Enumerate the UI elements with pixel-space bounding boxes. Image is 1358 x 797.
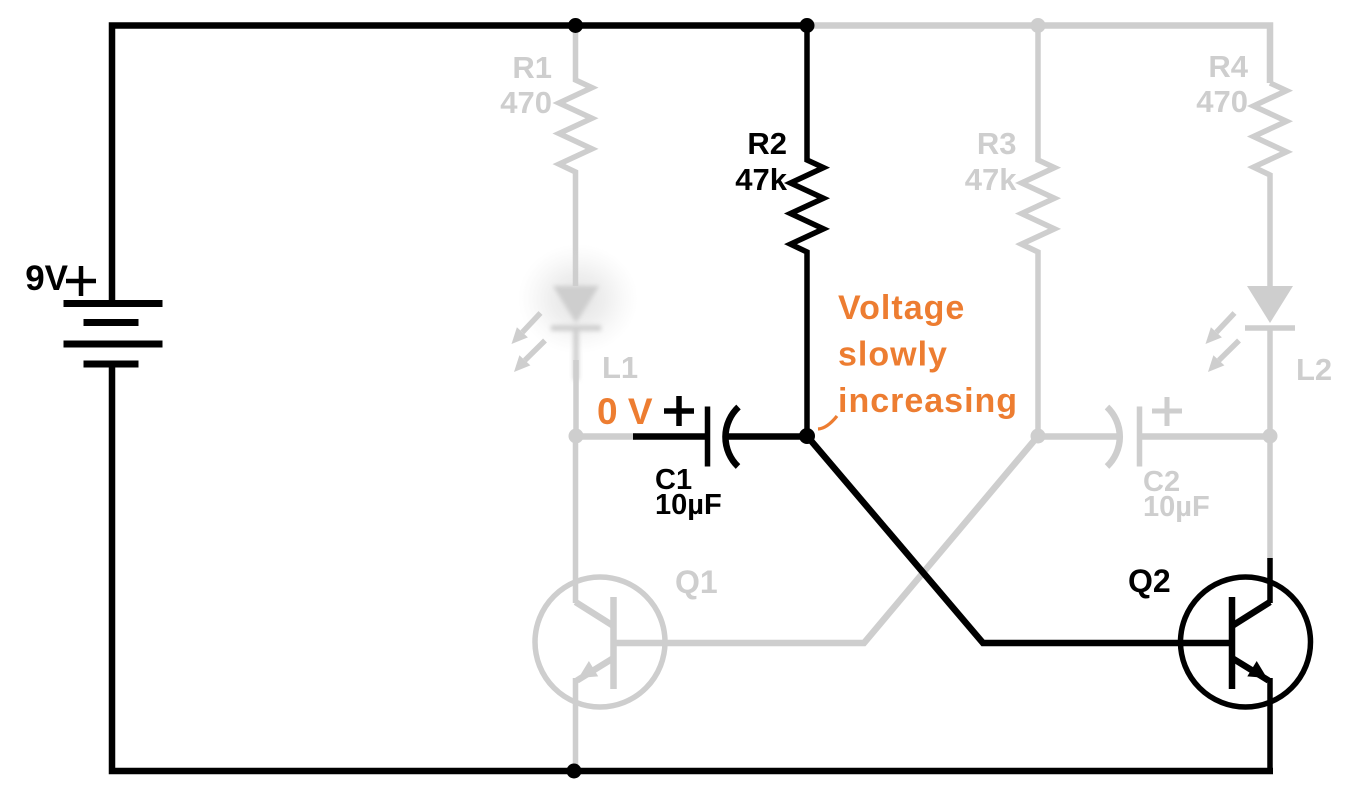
Q2 base bar bbox=[1229, 597, 1236, 689]
transistor Q1 (gray) circle bbox=[535, 577, 665, 707]
wire: top rail + left rail (battery top) bbox=[112, 26, 807, 304]
svg-text:Q1: Q1 bbox=[675, 564, 718, 600]
svg-text:47k: 47k bbox=[965, 162, 1017, 197]
capacitor C1 (black 10uF) bbox=[633, 396, 807, 467]
resistor R2 (black 47k) bbox=[791, 26, 824, 437]
svg-text:R3: R3 bbox=[977, 126, 1017, 161]
node: gray junction dot on top rail at R3 top bbox=[1031, 18, 1046, 33]
wire: gray Q2 collector lead from C2 node down bbox=[1267, 436, 1273, 560]
svg-text:R1: R1 bbox=[512, 50, 552, 85]
Q2 emitter arrow head bbox=[1247, 661, 1267, 678]
annotation leader curve bbox=[818, 416, 837, 429]
Q1 emitter stroke bbox=[577, 658, 614, 681]
wire: Q2 collector lead (black part) bbox=[1267, 558, 1273, 603]
capacitor C2 (gray 10uF) bbox=[1038, 397, 1270, 467]
wire: Q2 emitter lead to bottom rail bbox=[1267, 678, 1273, 771]
wire: black cross-coupling from node to Q2 base bbox=[807, 436, 1232, 643]
L2 light arrows bbox=[1206, 313, 1240, 372]
wire: gray cross-coupling from R3/C2 node to Q1 base bbox=[613, 436, 1038, 643]
resistor R3 (gray 47k) bbox=[1022, 26, 1055, 437]
transistor Q2 (black) circle bbox=[1181, 577, 1311, 707]
svg-text:10µF: 10µF bbox=[655, 489, 722, 521]
svg-text:0 V: 0 V bbox=[597, 391, 653, 432]
battery B1 9V bbox=[64, 304, 163, 365]
node: black dot at Q1 emitter on bottom rail bbox=[567, 764, 582, 779]
svg-text:470: 470 bbox=[500, 85, 552, 120]
svg-text:10µF: 10µF bbox=[1143, 491, 1210, 523]
svg-text:R2: R2 bbox=[747, 126, 787, 161]
svg-text:L1: L1 bbox=[602, 350, 638, 385]
svg-text:slowly: slowly bbox=[838, 336, 948, 374]
L1 light arrows bbox=[512, 313, 546, 372]
Q2 collector stroke bbox=[1232, 602, 1270, 626]
svg-text:R4: R4 bbox=[1208, 49, 1248, 84]
svg-text:increasing: increasing bbox=[838, 382, 1018, 420]
wire: Q1 emitter lead to bottom rail bbox=[573, 678, 579, 771]
node: gray dot at C2 right / L2 bottom bbox=[1263, 429, 1278, 444]
resistor R1 (gray 470) bbox=[559, 26, 592, 287]
node: gray dot at L1 bottom / C1 left bbox=[569, 429, 584, 444]
svg-text:Voltage: Voltage bbox=[838, 289, 965, 327]
Q1 emitter arrow head bbox=[579, 661, 599, 678]
node: black junction dot R2/C1/Q2-base bbox=[799, 428, 815, 444]
Q1 collector stroke bbox=[576, 602, 614, 626]
Q2 emitter stroke bbox=[1232, 658, 1269, 681]
node: gray dot at R3 bottom / C2 left bbox=[1031, 429, 1046, 444]
wire: gray stub from L1 node toward C1 bbox=[576, 433, 636, 440]
battery plus sign bbox=[66, 266, 96, 296]
wire: Q1 collector lead from L1 node bbox=[573, 436, 579, 603]
wire: gray top rail from R2 node to R4 corner bbox=[807, 26, 1270, 84]
Q1 base bar bbox=[610, 597, 617, 689]
svg-text:47k: 47k bbox=[735, 162, 787, 197]
LED L1 (gray, glowing) bbox=[551, 286, 601, 380]
node: black dot at R1 top bbox=[568, 18, 583, 33]
resistor R4 (gray 470) bbox=[1254, 83, 1287, 286]
svg-text:Q2: Q2 bbox=[1128, 563, 1171, 599]
svg-text:9V: 9V bbox=[25, 259, 68, 298]
LED L1 glow bbox=[518, 244, 638, 354]
svg-text:470: 470 bbox=[1196, 84, 1248, 119]
node: black dot at R2 top bbox=[800, 18, 815, 33]
svg-text:L2: L2 bbox=[1296, 352, 1332, 387]
wire: left rail (battery bottom) + bottom rail bbox=[112, 364, 1273, 771]
LED L2 (gray, off) bbox=[1245, 286, 1295, 436]
